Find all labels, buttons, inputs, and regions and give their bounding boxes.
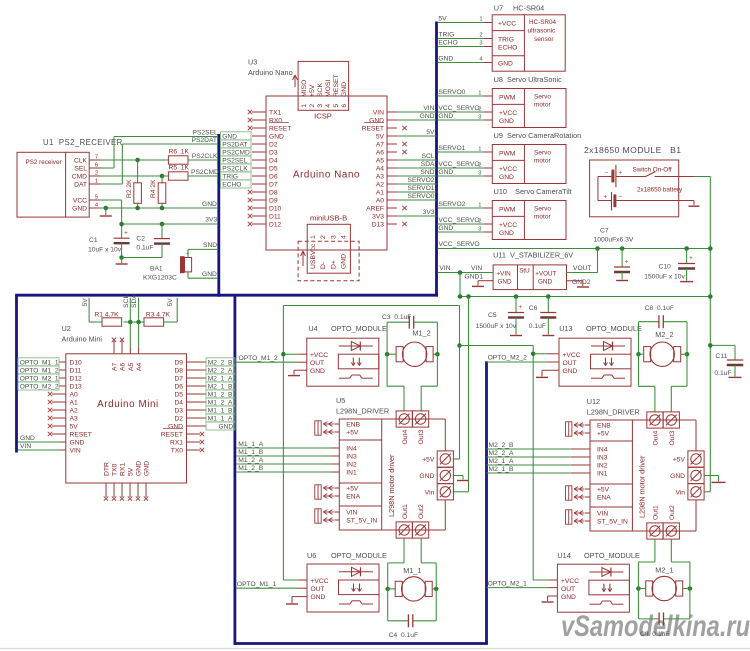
svg-text:DTR: DTR (104, 462, 111, 476)
svg-text:Out4: Out4 (402, 430, 409, 445)
svg-text:3: 3 (478, 115, 481, 121)
svg-text:U4: U4 (308, 324, 317, 333)
svg-text:C4 0.1uF: C4 0.1uF (389, 632, 418, 639)
svg-text:10uF x 10v: 10uF x 10v (88, 247, 122, 254)
svg-text:IN1: IN1 (346, 470, 357, 477)
svg-text:2: 2 (309, 104, 316, 108)
svg-text:5V: 5V (128, 467, 135, 476)
svg-text:motor: motor (534, 158, 551, 165)
svg-text:D8: D8 (269, 190, 278, 197)
svg-text:A2: A2 (376, 182, 384, 189)
svg-text:+5V: +5V (597, 487, 610, 494)
svg-text:A0: A0 (70, 392, 78, 399)
svg-text:L298N motor driver: L298N motor driver (638, 455, 647, 518)
svg-text:D7: D7 (174, 376, 183, 383)
svg-text:−: − (605, 169, 609, 176)
svg-text:3: 3 (317, 104, 324, 108)
svg-text:1: 1 (478, 203, 481, 209)
svg-text:GND2: GND2 (572, 279, 591, 286)
svg-text:+VCC: +VCC (310, 352, 328, 359)
svg-text:R2 2K: R2 2K (126, 179, 133, 198)
svg-text:1000uFx6.3V: 1000uFx6.3V (594, 237, 634, 244)
svg-text:VCC_SERVO: VCC_SERVO (438, 161, 479, 168)
svg-text:M1_1: M1_1 (403, 566, 421, 575)
svg-text:C7: C7 (600, 228, 609, 235)
svg-text:L298N_DRIVER: L298N_DRIVER (587, 408, 640, 417)
svg-text:0.1uF: 0.1uF (529, 323, 546, 330)
svg-text:1500uF x 10v: 1500uF x 10v (644, 274, 685, 281)
svg-text:PWM: PWM (499, 151, 516, 158)
svg-text:IN4: IN4 (346, 446, 357, 453)
svg-text:U5: U5 (336, 396, 345, 405)
svg-text:RESET: RESET (362, 126, 384, 133)
svg-text:1: 1 (479, 17, 482, 23)
svg-text:VIN: VIN (597, 511, 608, 518)
svg-text:SCK: SCK (317, 83, 324, 97)
svg-text:+: + (625, 259, 629, 266)
svg-text:GND: GND (499, 174, 514, 181)
svg-text:CMD: CMD (72, 174, 87, 181)
svg-text:5V: 5V (376, 134, 385, 141)
svg-text:RESET: RESET (161, 432, 183, 439)
svg-text:SERVO2: SERVO2 (407, 177, 434, 184)
svg-text:L298N_DRIVER: L298N_DRIVER (336, 407, 389, 416)
svg-text:PWM: PWM (499, 95, 516, 102)
svg-text:PS2CLK: PS2CLK (192, 153, 218, 160)
svg-text:1: 1 (301, 104, 308, 108)
svg-text:VCC_SERVO: VCC_SERVO (438, 217, 479, 224)
svg-text:M2_2_B: M2_2_B (489, 442, 514, 449)
svg-text:6: 6 (341, 104, 348, 108)
svg-text:M1_2: M1_2 (412, 329, 430, 338)
svg-text:5: 5 (333, 104, 340, 108)
svg-text:R5 1K: R5 1K (169, 165, 190, 172)
svg-text:+: + (124, 230, 128, 237)
svg-text:A6: A6 (120, 362, 127, 371)
svg-text:+VCC: +VCC (561, 578, 579, 585)
svg-text:2: 2 (95, 171, 98, 177)
svg-text:IN2: IN2 (597, 463, 608, 470)
svg-text:M2_1_B: M2_1_B (489, 466, 514, 473)
svg-text:M1_2_B: M1_2_B (238, 465, 263, 472)
svg-text:U12: U12 (587, 397, 600, 406)
svg-text:ECHO: ECHO (222, 181, 241, 188)
svg-text:D9: D9 (269, 198, 278, 205)
svg-text:VIN: VIN (471, 265, 482, 272)
svg-text:4: 4 (325, 104, 332, 108)
svg-text:D13: D13 (70, 384, 83, 391)
svg-text:RESET: RESET (269, 126, 291, 133)
svg-text:Arduino Nano: Arduino Nano (293, 170, 360, 181)
svg-text:U3: U3 (248, 58, 257, 67)
svg-text:U10 Servo CameraTilt: U10 Servo CameraTilt (494, 187, 572, 196)
svg-text:SND: SND (203, 242, 217, 249)
svg-text:SERVO1: SERVO1 (438, 145, 465, 152)
svg-text:Arduino Mini: Arduino Mini (97, 399, 159, 410)
svg-text:PS2 receiver: PS2 receiver (26, 159, 62, 166)
svg-text:A0: A0 (376, 198, 384, 205)
svg-text:HC-SR04: HC-SR04 (529, 19, 556, 26)
svg-text:Out1: Out1 (402, 504, 409, 519)
svg-text:2x18650 MODULE B1: 2x18650 MODULE B1 (584, 145, 681, 155)
svg-text:VCC: VCC (73, 198, 87, 205)
svg-text:Vin: Vin (675, 489, 685, 496)
svg-text:PS2CLK: PS2CLK (222, 165, 248, 172)
svg-text:R4 2K: R4 2K (150, 179, 157, 198)
svg-text:motor: motor (534, 214, 551, 221)
svg-text:+5V: +5V (597, 431, 610, 438)
svg-text:Arduino Mini: Arduino Mini (62, 335, 103, 344)
svg-text:U6: U6 (307, 551, 316, 560)
svg-text:MISO: MISO (301, 80, 308, 97)
svg-text:Servo: Servo (534, 206, 551, 213)
svg-text:+VCC: +VCC (499, 222, 517, 229)
svg-text:5V: 5V (70, 424, 79, 431)
svg-text:OPTO_MODULE: OPTO_MODULE (584, 551, 640, 560)
svg-text:D8: D8 (174, 368, 183, 375)
svg-text:U14: U14 (557, 551, 570, 560)
svg-text:U8 Servo UltraSonic: U8 Servo UltraSonic (494, 75, 562, 84)
svg-text:GND: GND (420, 113, 435, 120)
svg-text:SERVO1: SERVO1 (407, 185, 434, 192)
svg-text:VIN: VIN (439, 265, 450, 272)
svg-text:+5V: +5V (309, 84, 316, 97)
svg-text:OPTO_M2_1: OPTO_M2_1 (488, 580, 528, 587)
svg-text:ENA: ENA (346, 494, 360, 501)
svg-text:VIN: VIN (70, 448, 81, 455)
svg-text:M1_1_B: M1_1_B (238, 449, 263, 456)
svg-text:C10: C10 (659, 264, 672, 271)
svg-text:SEL: SEL (74, 166, 87, 173)
svg-text:GND: GND (499, 118, 514, 125)
svg-text:A3: A3 (70, 416, 78, 423)
svg-text:TX1: TX1 (269, 110, 282, 117)
svg-text:Out2: Out2 (669, 505, 676, 520)
svg-text:D10: D10 (70, 360, 83, 367)
svg-text:3V3: 3V3 (372, 214, 384, 221)
svg-text:OUT: OUT (563, 360, 577, 367)
svg-text:M2_1_A: M2_1_A (489, 458, 514, 465)
svg-text:2: 2 (320, 235, 327, 239)
svg-text:RESET: RESET (70, 432, 92, 439)
svg-text:+5V: +5V (346, 486, 359, 493)
svg-text:2x18650 battery: 2x18650 battery (637, 187, 683, 194)
svg-text:0.1uF: 0.1uF (136, 245, 153, 252)
svg-text:U11 V_STABILIZER_6V: U11 V_STABILIZER_6V (493, 251, 573, 260)
svg-text:7: 7 (95, 155, 98, 161)
svg-text:GND: GND (311, 594, 326, 601)
svg-text:ST_5V_IN: ST_5V_IN (597, 519, 628, 526)
svg-text:C9 0.1uF: C9 0.1uF (640, 631, 669, 638)
svg-text:GND: GND (218, 423, 233, 430)
svg-text:USBVcc: USBVcc (310, 243, 317, 269)
svg-text:PS2CMD: PS2CMD (222, 149, 250, 156)
svg-text:OPTO_MODULE: OPTO_MODULE (331, 324, 387, 333)
svg-text:BA1: BA1 (150, 266, 163, 273)
svg-text:DAT: DAT (74, 182, 87, 189)
svg-text:GND: GND (419, 473, 434, 480)
svg-text:KXG1203C: KXG1203C (143, 275, 177, 282)
svg-text:A3: A3 (376, 174, 384, 181)
svg-text:2: 2 (479, 33, 482, 39)
svg-text:VIN: VIN (346, 510, 357, 517)
svg-text:Out1: Out1 (653, 505, 660, 520)
svg-text:OPTO_MODULE: OPTO_MODULE (331, 551, 387, 560)
svg-text:ICSP: ICSP (314, 112, 332, 121)
svg-text:Servo: Servo (534, 94, 551, 101)
svg-text:GND: GND (310, 368, 325, 375)
svg-text:A7: A7 (376, 142, 384, 149)
svg-text:M1_2_A: M1_2_A (238, 457, 263, 464)
svg-text:Switch On-Off: Switch On-Off (633, 167, 672, 174)
svg-text:PS2SEL: PS2SEL (193, 130, 219, 137)
svg-text:VIN: VIN (373, 110, 384, 117)
svg-text:PS2SEL: PS2SEL (222, 157, 247, 164)
svg-text:D+: D+ (330, 260, 337, 269)
svg-text:1: 1 (478, 91, 481, 97)
svg-text:GND: GND (222, 133, 237, 140)
svg-text:VCC_SERVO: VCC_SERVO (438, 105, 479, 112)
svg-text:R3 4.7K: R3 4.7K (146, 312, 171, 319)
svg-text:A4: A4 (376, 166, 384, 173)
svg-text:+VCC: +VCC (563, 352, 581, 359)
svg-text:+: + (619, 169, 623, 176)
svg-text:GND: GND (202, 271, 217, 278)
svg-text:SCL: SCL (421, 153, 434, 160)
svg-text:M2_2_A: M2_2_A (489, 450, 514, 457)
svg-text:C5: C5 (488, 312, 497, 319)
svg-text:GND: GND (341, 254, 348, 269)
svg-text:OUT: OUT (311, 586, 325, 593)
svg-text:R1 4.7K: R1 4.7K (94, 312, 119, 319)
svg-text:GND: GND (20, 435, 35, 442)
svg-text:TX0: TX0 (171, 448, 184, 455)
svg-text:5: 5 (95, 195, 98, 201)
svg-text:C1: C1 (89, 237, 98, 244)
svg-text:L298N motor driver: L298N motor driver (387, 454, 396, 517)
svg-text:GND: GND (136, 461, 143, 476)
svg-text:U2: U2 (62, 324, 71, 333)
svg-text:5V: 5V (82, 298, 89, 307)
svg-text:D3: D3 (174, 408, 183, 415)
svg-text:PS2DAT: PS2DAT (192, 137, 218, 144)
svg-text:ENB: ENB (597, 423, 611, 430)
svg-text:GND: GND (144, 461, 151, 476)
svg-text:OUT: OUT (561, 586, 575, 593)
svg-text:U9 Servo CameraRotation: U9 Servo CameraRotation (494, 131, 582, 140)
svg-text:VIN: VIN (20, 443, 31, 450)
svg-text:Arduino Nano: Arduino Nano (248, 68, 293, 77)
svg-text:+5V: +5V (346, 430, 359, 437)
svg-text:TRIG: TRIG (498, 36, 514, 43)
svg-text:VIN: VIN (423, 105, 434, 112)
svg-text:D5: D5 (269, 166, 278, 173)
svg-text:D12: D12 (70, 376, 83, 383)
svg-text:Out3: Out3 (669, 431, 676, 446)
svg-text:GND: GND (369, 118, 384, 125)
svg-text:U13: U13 (559, 324, 572, 333)
svg-text:D6: D6 (269, 174, 278, 181)
svg-text:1: 1 (95, 179, 98, 185)
svg-text:GND: GND (269, 134, 284, 141)
svg-text:+: + (519, 304, 523, 311)
svg-text:RX1: RX1 (120, 463, 127, 476)
svg-text:3V3: 3V3 (205, 217, 217, 224)
svg-text:GND: GND (561, 594, 576, 601)
svg-text:ST_5V_IN: ST_5V_IN (346, 518, 377, 525)
svg-text:GND: GND (438, 225, 453, 232)
svg-text:D13: D13 (372, 222, 385, 229)
svg-text:SND: SND (420, 169, 434, 176)
svg-text:A7: A7 (112, 362, 119, 371)
svg-text:GND: GND (670, 473, 685, 480)
svg-text:0.1uF: 0.1uF (714, 370, 731, 377)
svg-text:ECHO: ECHO (498, 44, 517, 51)
svg-text:+VIN: +VIN (497, 270, 512, 277)
svg-text:SERVO0: SERVO0 (438, 89, 465, 96)
svg-text:TX0: TX0 (112, 463, 119, 476)
svg-text:+VCC: +VCC (499, 110, 517, 117)
svg-text:C11: C11 (716, 353, 728, 360)
svg-text:5V: 5V (426, 129, 435, 136)
svg-text:C2: C2 (136, 236, 145, 243)
svg-text:+VOUT: +VOUT (535, 270, 556, 277)
svg-text:CLK: CLK (74, 158, 88, 165)
svg-text:sensor: sensor (534, 36, 554, 43)
svg-text:TRIG: TRIG (222, 173, 238, 180)
svg-text:+VCC: +VCC (499, 166, 517, 173)
svg-text:D6: D6 (174, 384, 183, 391)
svg-text:6: 6 (95, 163, 98, 169)
svg-text:D2: D2 (174, 416, 183, 423)
svg-text:GND: GND (341, 82, 348, 97)
svg-text:IN3: IN3 (597, 455, 608, 462)
svg-text:PS2DAT: PS2DAT (222, 141, 247, 148)
svg-text:+: + (689, 255, 693, 262)
svg-text:RESET: RESET (333, 74, 340, 97)
svg-text:Out4: Out4 (653, 431, 660, 446)
svg-text:3: 3 (479, 41, 482, 47)
svg-text:StU: StU (519, 267, 530, 274)
svg-text:D-: D- (320, 262, 327, 269)
svg-text:A5: A5 (128, 362, 135, 371)
svg-text:SERVO0: SERVO0 (407, 193, 434, 200)
svg-text:OPTO_MODULE: OPTO_MODULE (586, 324, 642, 333)
svg-text:Out2: Out2 (418, 504, 425, 519)
svg-text:GND: GND (498, 279, 512, 286)
svg-text:C8 0.1uF: C8 0.1uF (645, 305, 674, 312)
svg-text:3V3: 3V3 (423, 209, 435, 216)
svg-text:ECHO: ECHO (438, 40, 457, 47)
svg-text:+5V: +5V (673, 457, 686, 464)
svg-text:OPTO_M1_1: OPTO_M1_1 (237, 581, 277, 588)
svg-text:SDA: SDA (131, 294, 138, 308)
svg-text:RX0: RX0 (269, 118, 282, 125)
svg-text:SDA: SDA (421, 161, 435, 168)
svg-text:A1: A1 (70, 400, 78, 407)
svg-text:D10: D10 (269, 206, 282, 213)
svg-text:GND: GND (202, 201, 217, 208)
svg-text:GND: GND (72, 206, 87, 213)
svg-text:OPTO_M2_2: OPTO_M2_2 (20, 383, 59, 390)
svg-text:A6: A6 (376, 150, 384, 157)
svg-text:+VCC: +VCC (311, 578, 329, 585)
svg-text:D11: D11 (269, 214, 281, 221)
svg-text:IN4: IN4 (597, 447, 608, 454)
svg-text:Servo: Servo (534, 150, 551, 157)
svg-text:GND: GND (538, 279, 552, 286)
svg-text:IN3: IN3 (346, 454, 357, 461)
svg-text:vSamodelkina.ru: vSamodelkina.ru (561, 610, 750, 643)
svg-text:5V: 5V (438, 16, 447, 23)
svg-text:TRIG: TRIG (438, 32, 454, 39)
svg-text:D4: D4 (269, 158, 278, 165)
svg-text:GND: GND (438, 56, 453, 63)
svg-text:+5V: +5V (422, 457, 435, 464)
svg-text:D4: D4 (174, 400, 183, 407)
svg-text:A4: A4 (136, 362, 143, 371)
svg-text:3: 3 (330, 235, 337, 239)
svg-text:D3: D3 (269, 150, 278, 157)
svg-text:1: 1 (310, 235, 317, 239)
svg-text:GND: GND (70, 440, 85, 447)
svg-text:motor: motor (534, 102, 551, 109)
svg-text:IN1: IN1 (597, 471, 608, 478)
svg-text:ENA: ENA (597, 495, 611, 502)
svg-text:ENB: ENB (346, 422, 360, 429)
svg-text:OUT: OUT (310, 360, 324, 367)
svg-text:A1: A1 (376, 190, 384, 197)
svg-text:U7: U7 (494, 4, 503, 13)
svg-text:GND: GND (438, 169, 453, 176)
svg-text:+VCC: +VCC (498, 20, 516, 27)
svg-text:D5: D5 (174, 392, 183, 399)
svg-text:RX1: RX1 (170, 440, 183, 447)
svg-text:VCC_SERVO: VCC_SERVO (439, 241, 480, 248)
svg-text:Vin: Vin (425, 489, 435, 496)
svg-text:C6: C6 (529, 305, 538, 312)
svg-text:4: 4 (341, 235, 348, 239)
svg-text:OPTO_M2_2: OPTO_M2_2 (488, 355, 528, 362)
svg-text:GND: GND (499, 230, 514, 237)
svg-text:GND: GND (438, 113, 453, 120)
svg-text:PWM: PWM (499, 207, 516, 214)
svg-text:GND: GND (498, 60, 513, 67)
svg-text:M2_2: M2_2 (655, 330, 673, 339)
svg-text:SCL: SCL (123, 295, 130, 308)
svg-text:1500uF x 10v: 1500uF x 10v (476, 323, 517, 330)
svg-text:D11: D11 (70, 368, 82, 375)
svg-text:IN2: IN2 (346, 462, 357, 469)
svg-text:AREF: AREF (366, 206, 384, 213)
svg-text:PS2CMD: PS2CMD (191, 169, 219, 176)
svg-text:MOSI: MOSI (325, 80, 332, 97)
svg-text:−: − (619, 194, 623, 201)
svg-text:D7: D7 (269, 182, 278, 189)
svg-text:SERVO2: SERVO2 (438, 201, 465, 208)
svg-text:3: 3 (478, 227, 481, 233)
svg-text:+: + (604, 194, 608, 201)
svg-text:3: 3 (478, 171, 481, 177)
svg-text:ultrasonic: ultrasonic (528, 28, 557, 35)
svg-text:D12: D12 (269, 222, 282, 229)
svg-text:A5: A5 (376, 158, 384, 165)
svg-text:D2: D2 (269, 142, 278, 149)
svg-text:GND1: GND1 (465, 274, 484, 281)
svg-text:R6 1K: R6 1K (169, 149, 190, 156)
svg-text:GND: GND (563, 368, 578, 375)
svg-text:A2: A2 (70, 408, 78, 415)
